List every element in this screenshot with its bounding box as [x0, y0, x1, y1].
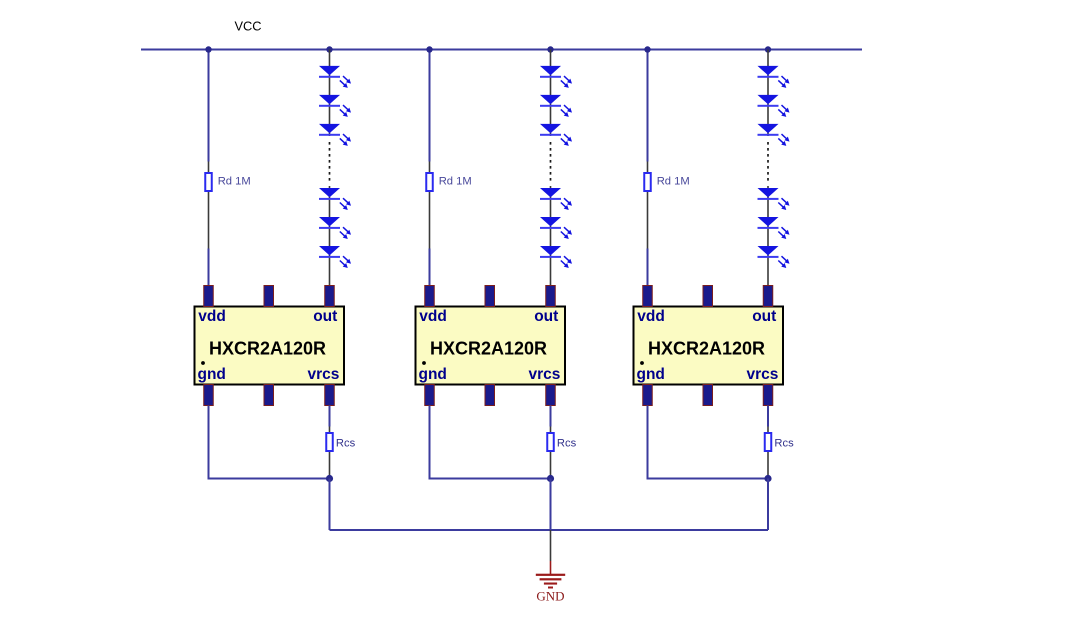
svg-text:Rd 1M: Rd 1M: [218, 175, 251, 187]
svg-text:gnd: gnd: [637, 366, 665, 383]
resistor Rd 1M (column 1): [205, 162, 212, 249]
wire gnd pin of U2 down and right to Rcs junction: [430, 406, 551, 479]
resistor Rcs (column 1): [326, 427, 333, 478]
pin name vdd of U2: [419, 308, 447, 325]
wire LED chain 1 dashed segment: [329, 142, 331, 184]
pin top-middle of U3: [703, 286, 713, 307]
LED 2.1: [540, 66, 572, 88]
svg-text:vdd: vdd: [198, 308, 226, 325]
wire LED chain 2 upper segment: [550, 50, 552, 137]
wire LED chain 3 dashed segment: [767, 142, 769, 184]
svg-text:vrcs: vrcs: [528, 366, 560, 383]
junction below Rcs (column 1): [326, 475, 333, 482]
pin gnd (bottom-left) of U1: [204, 385, 214, 406]
junction on VCC rail at Rd1: [205, 46, 211, 52]
pin top-middle of U1: [264, 286, 274, 307]
svg-text:vdd: vdd: [637, 308, 665, 325]
wire VCC rail: [141, 49, 862, 51]
pin-1 marker dot of U3: [640, 361, 644, 365]
pin name gnd of U2: [419, 366, 447, 383]
pin-1 marker dot of U2: [422, 361, 426, 365]
LED 3.3: [758, 124, 790, 146]
wire Rd3 to vdd pin: [647, 249, 649, 287]
wire VCC rail to Rd3: [647, 50, 649, 162]
svg-text:GND: GND: [536, 589, 564, 604]
pin name vrcs of U1: [307, 366, 339, 383]
LED 2.3: [540, 124, 572, 146]
wire Rcs junction 2 down to ground bus: [550, 479, 552, 531]
svg-text:HXCR2A120R: HXCR2A120R: [209, 339, 326, 359]
svg-text:Rcs: Rcs: [557, 437, 577, 449]
wire LED chain 1 lower segment: [329, 186, 331, 286]
pin gnd (bottom-left) of U2: [425, 385, 435, 406]
pin bottom-middle of U2: [485, 385, 495, 406]
wire vrcs pin of U3 to Rcs: [767, 406, 769, 427]
wire gnd pin of U1 down and right to Rcs junction: [209, 406, 330, 479]
LED 3.6: [758, 246, 790, 268]
LED 1.6: [319, 246, 351, 268]
LED 1.2: [319, 95, 351, 117]
junction on VCC rail at Rd2: [426, 46, 432, 52]
LED 3.1: [758, 66, 790, 88]
IC U2 HXCR2A120R body: [416, 307, 566, 385]
pin out (top-right) of U3: [763, 286, 773, 307]
wire VCC rail to Rd2: [429, 50, 431, 162]
wire LED chain 3 lower segment: [767, 186, 769, 286]
svg-text:Rd 1M: Rd 1M: [439, 175, 472, 187]
svg-text:vdd: vdd: [419, 308, 447, 325]
junction on VCC rail at LED chain 1: [326, 46, 332, 52]
svg-text:Rcs: Rcs: [336, 437, 356, 449]
svg-text:gnd: gnd: [419, 366, 447, 383]
LED 1.4: [319, 188, 351, 210]
svg-text:gnd: gnd: [198, 366, 226, 383]
wire vrcs pin of U2 to Rcs: [550, 406, 552, 427]
node VCC: [235, 19, 262, 34]
junction below Rcs (column 2): [547, 475, 554, 482]
part name HXCR2A120R of U1: [209, 339, 326, 359]
pin bottom-middle of U1: [264, 385, 274, 406]
label Rcs (column 1): [336, 437, 356, 449]
wire ground bus to GND symbol: [550, 530, 552, 561]
label GND: [536, 589, 564, 604]
pin name vdd of U1: [198, 308, 226, 325]
pin name vrcs of U2: [528, 366, 560, 383]
resistor Rcs (column 3): [765, 427, 772, 478]
LED 2.5: [540, 217, 572, 239]
part name HXCR2A120R of U3: [648, 339, 765, 359]
LED 3.2: [758, 95, 790, 117]
resistor Rcs (column 2): [547, 427, 554, 478]
wire vrcs pin of U1 to Rcs: [329, 406, 331, 427]
junction below Rcs (column 3): [764, 475, 771, 482]
svg-text:vrcs: vrcs: [746, 366, 778, 383]
pin top-middle of U2: [485, 286, 495, 307]
wire Rd1 to vdd pin: [208, 249, 210, 287]
svg-text:vrcs: vrcs: [307, 366, 339, 383]
wire ground bus: [330, 529, 769, 531]
svg-text:Rd 1M: Rd 1M: [657, 175, 690, 187]
junction on VCC rail at LED chain 2: [547, 46, 553, 52]
label Rd 1M (column 2): [439, 175, 472, 187]
svg-text:out: out: [534, 308, 558, 325]
pin out (top-right) of U2: [546, 286, 556, 307]
wire VCC rail to Rd1: [208, 50, 210, 162]
pin name vrcs of U3: [746, 366, 778, 383]
pin name out of U3: [752, 308, 776, 325]
pin out (top-right) of U1: [325, 286, 335, 307]
svg-text:HXCR2A120R: HXCR2A120R: [648, 339, 765, 359]
pin name gnd of U1: [198, 366, 226, 383]
junction on VCC rail at Rd3: [644, 46, 650, 52]
junction on VCC rail at LED chain 3: [765, 46, 771, 52]
LED 1.3: [319, 124, 351, 146]
IC U3 HXCR2A120R body: [634, 307, 784, 385]
pin vdd (top-left) of U1: [204, 286, 214, 307]
LED 2.6: [540, 246, 572, 268]
LED 3.5: [758, 217, 790, 239]
pin gnd (bottom-left) of U3: [643, 385, 653, 406]
pin name out of U1: [313, 308, 337, 325]
LED 1.1: [319, 66, 351, 88]
LED 2.2: [540, 95, 572, 117]
label Rcs (column 2): [557, 437, 577, 449]
label Rd 1M (column 3): [657, 175, 690, 187]
pin vdd (top-left) of U3: [643, 286, 653, 307]
part name HXCR2A120R of U2: [430, 339, 547, 359]
ground GND symbol: [536, 561, 565, 589]
pin name out of U2: [534, 308, 558, 325]
wire Rcs junction 1 down to ground bus: [329, 479, 331, 531]
pin name vdd of U3: [637, 308, 665, 325]
svg-text:out: out: [752, 308, 776, 325]
pin vrcs (bottom-right) of U2: [546, 385, 556, 406]
wire LED chain 2 lower segment: [550, 186, 552, 286]
svg-text:Rcs: Rcs: [774, 437, 794, 449]
pin-1 marker dot of U1: [201, 361, 205, 365]
wire Rcs junction 3 down to ground bus: [767, 479, 769, 531]
pin vrcs (bottom-right) of U3: [763, 385, 773, 406]
pin vrcs (bottom-right) of U1: [325, 385, 335, 406]
wire LED chain 3 upper segment: [767, 50, 769, 137]
wire LED chain 2 dashed segment: [550, 142, 552, 184]
wire Rd2 to vdd pin: [429, 249, 431, 287]
pin vdd (top-left) of U2: [425, 286, 435, 307]
LED 2.4: [540, 188, 572, 210]
wire LED chain 1 upper segment: [329, 50, 331, 137]
resistor Rd 1M (column 2): [426, 162, 433, 249]
label Rd 1M (column 1): [218, 175, 251, 187]
LED 3.4: [758, 188, 790, 210]
IC U1 HXCR2A120R body: [195, 307, 345, 385]
pin name gnd of U3: [637, 366, 665, 383]
pin bottom-middle of U3: [703, 385, 713, 406]
svg-text:HXCR2A120R: HXCR2A120R: [430, 339, 547, 359]
svg-text:VCC: VCC: [235, 19, 262, 34]
LED 1.5: [319, 217, 351, 239]
wire gnd pin of U3 down and right to Rcs junction: [648, 406, 769, 479]
label Rcs (column 3): [774, 437, 794, 449]
resistor Rd 1M (column 3): [644, 162, 651, 249]
svg-text:out: out: [313, 308, 337, 325]
